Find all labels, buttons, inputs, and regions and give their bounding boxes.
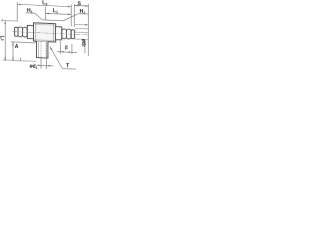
svg-text:S: S (78, 1, 82, 7)
svg-text:L2: L2 (0, 35, 5, 40)
svg-text:F: F (65, 46, 68, 52)
svg-text:A: A (15, 44, 19, 50)
